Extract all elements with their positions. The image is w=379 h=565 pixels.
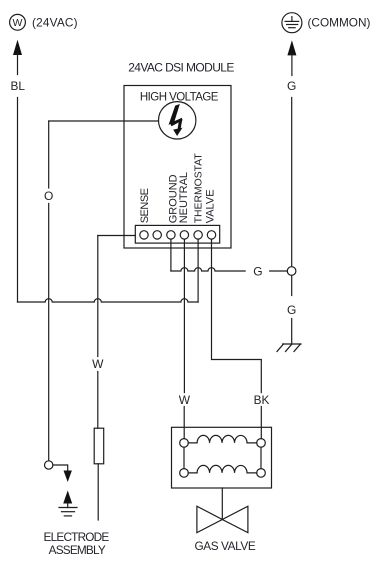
svg-text:SENSE: SENSE [139, 188, 151, 223]
electrode connector circle [45, 461, 53, 469]
wire O vertical [48, 121, 50, 461]
wire NEUTRAL vertical [183, 239, 185, 439]
wire THERMOSTAT vertical [197, 239, 199, 302]
wire joining coil ends right [260, 447, 262, 468]
gas valve box [172, 427, 272, 488]
terminal 6 VALVE [207, 231, 215, 239]
svg-text:G: G [287, 79, 296, 93]
svg-text:W: W [13, 17, 23, 29]
wire GROUND to G horizontal with hops [171, 268, 287, 271]
lightning bolt [169, 104, 183, 136]
wire BL to thermostat horizontal with hops [18, 299, 199, 302]
wire GROUND vertical [170, 239, 172, 271]
connector circle G [287, 267, 296, 276]
svg-text:NEUTRAL: NEUTRAL [178, 172, 190, 223]
wire below connector [291, 275, 293, 295]
svg-text:GAS VALVE: GAS VALVE [194, 539, 255, 553]
chassis ground [277, 344, 301, 352]
wire SENSE vertical [97, 236, 99, 429]
svg-text:G: G [287, 303, 296, 317]
terminal 1 SENSE [140, 231, 148, 239]
arrow up BL [13, 40, 22, 75]
terminal 3 GROUND [167, 231, 175, 239]
svg-text:VALVE: VALVE [204, 189, 216, 223]
wire VALVE [212, 239, 262, 439]
svg-text:(24VAC): (24VAC) [32, 15, 78, 29]
flame rod body [94, 428, 104, 464]
wire joining coil ends left [183, 447, 185, 468]
terminal strip box [135, 225, 219, 243]
high voltage symbol circle [159, 102, 196, 139]
flame rod tip wire [97, 464, 99, 520]
svg-text:BL: BL [11, 79, 26, 93]
svg-text:ASSEMBLY: ASSEMBLY [49, 543, 106, 557]
arrow up G [287, 40, 296, 75]
svg-text:O: O [44, 189, 53, 203]
terminal 5 THERMOSTAT [194, 231, 202, 239]
svg-text:(COMMON): (COMMON) [308, 15, 371, 29]
wire to chassis ground [291, 319, 293, 345]
coil L2 bottom [180, 465, 266, 477]
svg-text:THERMOSTAT: THERMOSTAT [194, 153, 205, 224]
terminal 2 [153, 231, 161, 239]
label ELECTRODE ASSEMBLY [44, 530, 110, 557]
spark gap electrode up on earth ground [59, 491, 77, 516]
svg-text:BK: BK [254, 393, 270, 407]
svg-text:W: W [179, 393, 191, 407]
svg-text:W: W [92, 357, 104, 371]
spark gap electrode down [53, 465, 72, 482]
valve stem wire [221, 488, 223, 520]
wire G vertical [291, 98, 293, 267]
svg-text:ELECTRODE: ELECTRODE [44, 530, 110, 544]
terminal COMMON circle with earth symbol [282, 13, 302, 33]
terminal 4 NEUTRAL [180, 231, 188, 239]
terminal W (24VAC) [10, 14, 26, 30]
wire BL vertical [17, 98, 19, 303]
coil L1 top [180, 435, 266, 447]
wire O to high-voltage horizontal [49, 120, 159, 122]
svg-text:G: G [253, 265, 262, 279]
valve symbol [197, 506, 248, 532]
module 24VAC DSI MODULE box [124, 86, 231, 249]
svg-text:24VAC DSI MODULE: 24VAC DSI MODULE [128, 61, 234, 75]
wire SENSE horizontal [98, 235, 136, 237]
